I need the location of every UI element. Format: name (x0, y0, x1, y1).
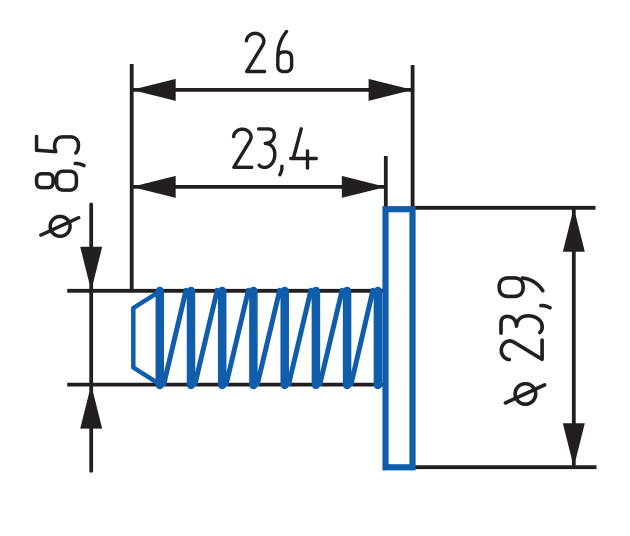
extension line, flange left face (23,4 dim) (384, 156, 388, 207)
dimension text dia 23,9 (499, 278, 550, 404)
arrowhead left, dim 23,4 (132, 176, 176, 198)
thread flank 1 (164, 290, 186, 384)
arrowhead right, dim 23,4 (342, 176, 386, 198)
arrowhead down, dim dia 23,9 (563, 423, 585, 467)
flange of fastener (blue) (386, 209, 413, 467)
thread rib 5 (280, 291, 289, 385)
screw tip chamfer outline (133, 292, 159, 385)
thread rib 3 (218, 291, 227, 385)
extension line, flange right face (26 dim) (411, 65, 415, 208)
thread flank 7 (351, 290, 373, 384)
dimension text 26 (246, 31, 291, 71)
dimension text dia 8,5 (37, 137, 84, 237)
arrowhead up, dim dia 8,5 (80, 385, 102, 429)
arrowhead down, dim dia 8,5 (80, 247, 102, 291)
thread flank 6 (320, 290, 342, 384)
thread flank 5 (289, 290, 311, 384)
dimension line 23,4 (132, 185, 386, 189)
arrowhead left, dim 26 (132, 79, 176, 101)
thread flank 2 (195, 290, 217, 384)
thread rib 4 (249, 291, 258, 385)
dimension text 23,4 (234, 129, 317, 175)
thread rib 2 (187, 291, 196, 385)
dimension line 26 (132, 88, 413, 92)
extension line, left end of part (26 / 23,4 dims) (130, 64, 134, 291)
thread rib 1 (156, 291, 165, 385)
thread flank 3 (226, 290, 248, 384)
shaft top line / extension of dia 8,5 (67, 289, 383, 293)
shaft bottom line / extension of dia 8,5 (67, 383, 383, 387)
arrowhead up, dim dia 23,9 (563, 208, 585, 252)
dimension line dia 23,9 (572, 208, 576, 467)
thread flank 4 (257, 290, 279, 384)
arrowhead right, dim 26 (369, 79, 413, 101)
thread rib 7 (343, 291, 352, 385)
extension line, flange top (dia 23,9) (413, 206, 596, 210)
extension line, flange bottom (dia 23,9) (415, 465, 597, 469)
dimension line dia 8,5 (89, 205, 93, 471)
thread rib 8 (374, 291, 383, 385)
thread rib 6 (312, 291, 321, 385)
